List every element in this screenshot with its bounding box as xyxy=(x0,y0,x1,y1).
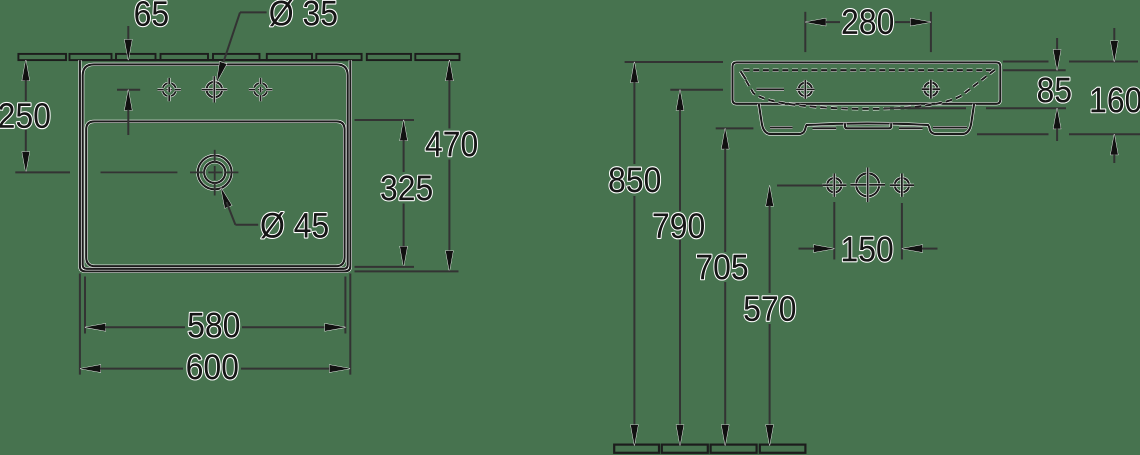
drain cover tab xyxy=(845,123,891,128)
dimension 280 (fixing hole spacing) xyxy=(805,9,931,52)
bowl overflow shelf line xyxy=(756,88,784,91)
hidden edge right foot xyxy=(933,126,967,129)
dimension 705 (shroud bottom height) xyxy=(697,128,753,445)
dimension 580 xyxy=(85,277,345,338)
optional tap hole (dashed) at x=260.6 xyxy=(249,78,272,101)
dimension 65 (wall to tap holes) xyxy=(117,1,168,135)
basin body outline (front view) xyxy=(733,62,1001,103)
basin rim hidden edge (dashed) xyxy=(744,69,992,72)
hidden clip rail right xyxy=(899,127,923,130)
dimension 85 (rim to bowl bottom) xyxy=(884,38,1071,141)
washbasin outer rim top edge xyxy=(80,59,350,61)
drain outlet center xyxy=(850,168,885,203)
bowl edge visible segment left xyxy=(741,71,746,79)
shroud outline under basin xyxy=(759,104,974,134)
fixing hole at x=930.9 xyxy=(922,80,940,99)
floor line (broken bar) xyxy=(614,445,805,453)
dimension 150 (wall fixing spacing) xyxy=(799,202,938,262)
basin bowl outline xyxy=(86,121,344,266)
dimension 850 (rim height) xyxy=(609,62,723,445)
dimension 790 (fixing hole height) xyxy=(654,90,723,446)
dimension 570 (wall fixing height) xyxy=(744,186,823,446)
tap hole Ø35 with centerlines xyxy=(202,76,228,102)
optional tap hole (dashed) at x=169.2 xyxy=(158,78,181,101)
hidden clip rail left xyxy=(813,127,837,130)
dimension 600 (overall width) xyxy=(80,274,350,380)
hidden edge left foot xyxy=(770,126,793,129)
washbasin outer outline xyxy=(80,60,350,271)
drain hole Ø45 with centerlines xyxy=(101,150,239,196)
dimension 160 (basin total height) xyxy=(977,28,1140,163)
wall fixing holes (pair) xyxy=(822,174,914,197)
fixing hole at x=805.3 xyxy=(796,80,814,99)
label Ø 45 with leader to drain xyxy=(221,188,328,239)
washbasin rim inner edge xyxy=(83,64,348,268)
label Ø 35 with leader to tap hole xyxy=(217,0,337,82)
dimension 470 (overall depth) xyxy=(355,60,478,271)
dimension 250 (wall to drain center) xyxy=(0,60,70,172)
dimension 325 (bowl depth) xyxy=(355,120,432,267)
bowl interior hidden outline (dashed) xyxy=(741,69,997,109)
wall line (broken bar, top view) xyxy=(18,54,459,60)
